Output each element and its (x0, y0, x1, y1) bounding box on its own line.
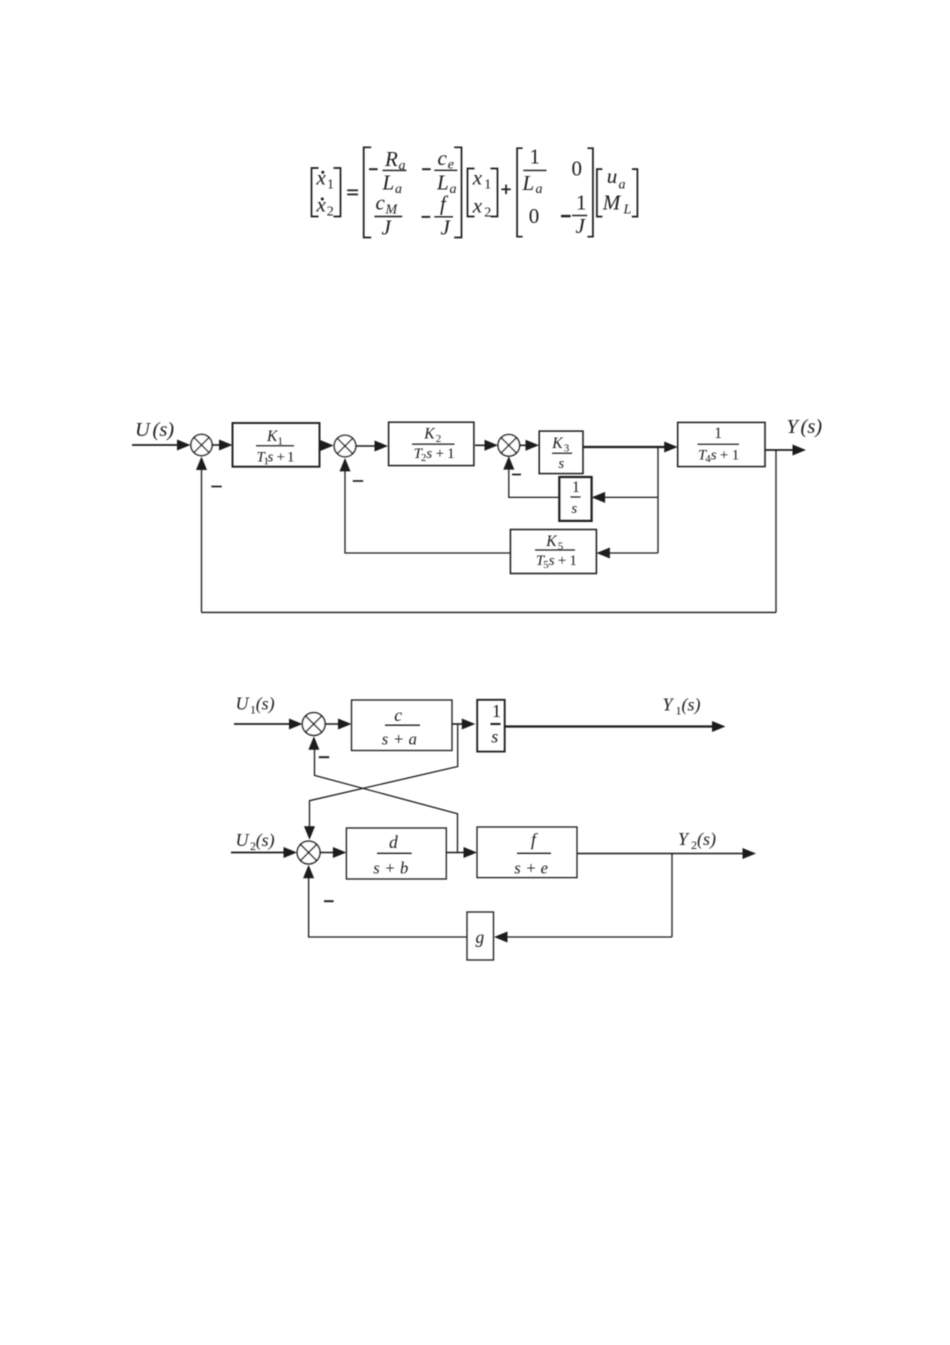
block g feedback gain (467, 912, 494, 960)
block f/(s+e) (477, 827, 577, 878)
minus sign at S3 feedback input (512, 474, 521, 476)
input vector [ua ML] (597, 164, 638, 217)
svg-text:a: a (395, 182, 402, 197)
wire: S5 to block d/(s+b) (320, 852, 336, 854)
svg-text:(s): (s) (697, 829, 716, 850)
svg-text:s: s (571, 501, 577, 517)
svg-text:a: a (409, 730, 417, 749)
minus sign at S1 feedback input (211, 486, 221, 488)
svg-text:+: + (277, 450, 285, 466)
wire: g output left and up into S5 (309, 874, 467, 937)
svg-text:u: u (607, 164, 618, 188)
svg-text:(s): (s) (256, 830, 275, 851)
svg-text:1: 1 (572, 479, 580, 496)
wire: S3 to block K3 (520, 444, 529, 446)
svg-text:c: c (376, 191, 386, 215)
wire: S1 to block K1 (213, 444, 223, 446)
svg-text:c: c (438, 146, 448, 170)
minus sign at S4 lower input (319, 756, 329, 758)
svg-text:e: e (541, 858, 548, 877)
svg-text:L: L (522, 171, 535, 195)
wire: T4 to Y(s) output arrow (765, 449, 796, 451)
summing junction S1 (191, 434, 212, 455)
svg-text:Y: Y (663, 695, 675, 715)
svg-text:1: 1 (287, 450, 295, 466)
svg-text:Y: Y (678, 829, 690, 849)
wire: K1 to summing junction S2 (320, 445, 324, 447)
system matrix A (364, 146, 462, 239)
svg-text:K: K (266, 428, 278, 445)
block K1/(T1 s+1) (233, 423, 320, 467)
svg-text:s: s (549, 553, 555, 569)
svg-text:U: U (236, 830, 250, 850)
svg-text:1: 1 (732, 447, 740, 463)
summing junction S4 (302, 713, 325, 736)
svg-text:K: K (551, 435, 563, 452)
svg-text:1: 1 (492, 701, 501, 721)
svg-text:x: x (472, 194, 483, 218)
node/wire: feedback tap after K3 down to 1/s and K5 (657, 447, 659, 553)
svg-text:3: 3 (564, 442, 570, 454)
svg-text:2: 2 (327, 204, 334, 219)
wire: cross feedback from d-output node up into S4 (315, 745, 458, 853)
svg-text:a: a (450, 182, 457, 197)
block K2/(T2 s+1) (389, 422, 474, 465)
wire: c/(s+a) to 1/s with cross tap node (452, 723, 465, 725)
svg-text:(s): (s) (801, 416, 823, 438)
minus sign at S5 lower input (324, 900, 334, 902)
state derivative vector [x1dot x2dot] (312, 166, 341, 220)
state vector [x1 x2] (468, 166, 498, 221)
svg-text:1: 1 (327, 178, 334, 193)
svg-text:s: s (268, 450, 274, 466)
wire: U2 input into summing junction S5 (231, 852, 286, 854)
svg-text:1: 1 (714, 425, 722, 442)
svg-text:(s): (s) (682, 695, 701, 716)
plus sign (501, 185, 510, 195)
svg-text:J: J (441, 215, 452, 239)
summing junction S3 (498, 435, 520, 457)
svg-text:s: s (382, 730, 388, 749)
svg-text:c: c (394, 705, 402, 725)
wire: Y2 feedback into g block (504, 936, 672, 938)
summing junction S5 (297, 841, 320, 864)
wire: outer feedback bottom run (202, 611, 777, 613)
wire: tap into 1/s block (602, 496, 658, 498)
svg-text:1: 1 (530, 145, 541, 169)
wire: K3 to block T4 with feedback tap node (583, 446, 668, 448)
svg-text:U: U (236, 694, 250, 714)
wire: K5 output left and up into S2 (345, 468, 510, 553)
svg-text:K: K (423, 426, 435, 443)
minus sign at S2 feedback input (353, 480, 363, 482)
svg-text:+: + (558, 553, 566, 569)
wire: outer feedback up into S1 (201, 466, 203, 612)
block 1/s integrator of diagram 1 (559, 477, 591, 521)
svg-text:+: + (526, 858, 535, 877)
svg-text:x: x (316, 192, 327, 216)
block c/(s+a) (352, 700, 453, 751)
wire: f/(s+e) to Y2(s) output arrow (577, 853, 746, 855)
summing junction S2 (334, 435, 356, 457)
svg-text:g: g (476, 927, 485, 947)
wire: S2 to block K2 (357, 445, 379, 447)
wire: 1/s output left and up into S3 (509, 466, 560, 497)
svg-text:a: a (536, 182, 543, 197)
svg-text:1: 1 (576, 190, 587, 214)
block K5/(T5 s+1) (510, 530, 596, 574)
svg-text:+: + (385, 858, 394, 877)
svg-text:d: d (389, 832, 398, 852)
svg-text:s: s (426, 446, 432, 462)
equals sign (347, 190, 358, 194)
svg-text:Y: Y (787, 416, 801, 438)
svg-text:s: s (491, 727, 498, 747)
svg-text:+: + (394, 730, 403, 749)
svg-text:+: + (720, 447, 728, 463)
block d/(s+b) (346, 828, 446, 879)
wire: U1 input into summing junction S4 (234, 723, 292, 725)
svg-text:+: + (436, 446, 444, 462)
svg-text:R: R (384, 147, 398, 171)
node/wire: Y2 feedback tap down (671, 854, 673, 938)
svg-text:1: 1 (447, 446, 455, 462)
svg-text:(s): (s) (256, 694, 275, 715)
svg-text:x: x (316, 166, 327, 190)
wire: d/(s+b) to f/(s+e) with cross tap node (446, 852, 467, 854)
svg-text:U: U (135, 419, 151, 441)
svg-text:(s): (s) (153, 419, 175, 441)
svg-text:J: J (382, 215, 393, 239)
svg-text:s: s (373, 858, 379, 877)
svg-text:f: f (440, 192, 449, 216)
svg-text:s: s (558, 456, 564, 472)
svg-text:b: b (400, 858, 408, 877)
svg-text:K: K (545, 533, 557, 550)
wire: K2 to summing junction S3 (475, 444, 488, 446)
block 1/s of diagram 2 (477, 700, 505, 752)
svg-text:x: x (472, 166, 483, 190)
svg-text:L: L (623, 203, 632, 218)
svg-text:a: a (399, 159, 406, 174)
wire: 1/s to Y1(s) output arrow (505, 725, 715, 727)
svg-text:0: 0 (572, 157, 583, 181)
block K3/s integrator gain (539, 431, 583, 474)
svg-text:J: J (576, 214, 587, 238)
svg-text:f: f (531, 830, 538, 850)
svg-text:0: 0 (529, 204, 540, 228)
svg-text:1: 1 (484, 177, 491, 192)
svg-text:s: s (711, 447, 717, 463)
block 1/(T4 s+1) (678, 422, 765, 466)
wire: cross feedforward from c-output node down into S5 (310, 724, 458, 831)
wire: U(s) input into summing junction S1 (132, 444, 179, 446)
svg-text:M: M (602, 191, 622, 215)
node/wire: output feedback tap down from Y line (775, 450, 777, 612)
input matrix B (517, 145, 593, 238)
svg-text:1: 1 (569, 553, 577, 569)
svg-text:s: s (514, 858, 520, 877)
svg-text:2: 2 (484, 205, 491, 220)
wire: tap into K5 block (606, 552, 658, 554)
wire: S4 to block c/(s+a) (325, 723, 342, 725)
svg-text:2: 2 (436, 433, 442, 445)
